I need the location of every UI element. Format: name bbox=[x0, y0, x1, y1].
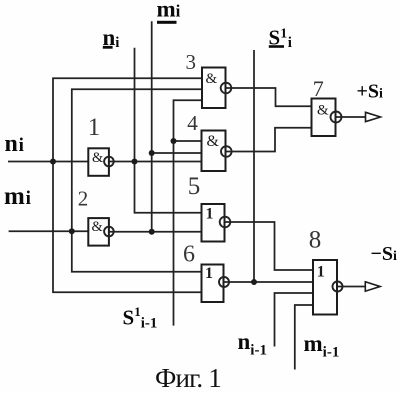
svg-text:8: 8 bbox=[309, 226, 322, 253]
gate U5 OR-NOT box bbox=[202, 204, 225, 242]
svg-text:2: 2 bbox=[78, 187, 89, 211]
node inverted m_i junction at gate5 input bbox=[149, 229, 155, 235]
wire input m_(i-1) to gate8 in4 bbox=[295, 305, 313, 370]
wire gate2 output to gate5 in2 bbox=[109, 231, 202, 233]
wire U-loop from ni node to gate3 in1 and gate6 in2 bbox=[53, 78, 202, 292]
svg-text:&: & bbox=[92, 219, 104, 235]
gate U7 AND-NOT box bbox=[312, 99, 336, 137]
node inverted m_i junction at gate4 tap bbox=[149, 150, 155, 156]
wire net S1(i-1) vertical to gate3 in3 bbox=[174, 100, 203, 325]
svg-text:3: 3 bbox=[186, 50, 197, 74]
svg-text:ni-1: ni-1 bbox=[238, 329, 267, 359]
svg-text:&: & bbox=[317, 103, 329, 119]
svg-text:1: 1 bbox=[317, 264, 325, 281]
inversion bubble gate8 bbox=[333, 282, 343, 292]
inverter U2 box bbox=[88, 218, 109, 246]
inversion bubble gate4 bbox=[221, 146, 232, 157]
wire gate6 output to gate8 in2 bbox=[224, 281, 314, 283]
node ni junction bbox=[50, 159, 56, 165]
underline of inverted m_i bbox=[157, 21, 177, 24]
svg-text:&: & bbox=[207, 133, 220, 150]
svg-text:+Si: +Si bbox=[357, 81, 384, 103]
svg-text:mi: mi bbox=[157, 0, 181, 22]
node mi junction bbox=[69, 228, 75, 234]
wire U-loop from mi node to gate3 in2 and gate6 in1 bbox=[72, 89, 202, 271]
wire gate4 output to gate7 in2 bbox=[226, 128, 312, 152]
wire input n_(i-1) to gate8 in3 bbox=[275, 293, 314, 347]
svg-text:mi-1: mi-1 bbox=[304, 331, 340, 361]
gate U3 AND-NOT box bbox=[202, 68, 226, 109]
wire ni input lead bbox=[8, 161, 88, 163]
wire gate5 output to gate8 in1 bbox=[225, 222, 314, 270]
wire vertical net S1_i bbox=[253, 50, 255, 282]
svg-text:4: 4 bbox=[187, 111, 198, 135]
wire gate7 output lead bbox=[336, 116, 366, 118]
underline of S1_i bbox=[269, 45, 284, 48]
wire vertical net n_i inverted down to gate5 in1 bbox=[135, 48, 202, 213]
wire gate1 output to gate4 in3 bbox=[109, 161, 202, 163]
inversion bubble gate6 bbox=[219, 277, 229, 287]
inversion bubble gate5 bbox=[220, 217, 231, 228]
node S1_i junction on gate6 output bbox=[251, 279, 257, 285]
svg-text:1: 1 bbox=[206, 206, 214, 223]
inversion bubble gate7 bbox=[331, 112, 342, 123]
svg-text:&: & bbox=[92, 150, 104, 166]
gate U4 AND-NOT box bbox=[202, 131, 226, 172]
svg-text:1: 1 bbox=[205, 265, 213, 282]
inversion bubble gate3 bbox=[221, 83, 232, 94]
wire mi input lead bbox=[9, 230, 89, 232]
wire tap S1(i-1) to gate4 in1 bbox=[174, 140, 202, 142]
svg-text:ni: ni bbox=[5, 131, 24, 157]
svg-text:S1i-1: S1i-1 bbox=[123, 304, 158, 332]
svg-text:7: 7 bbox=[313, 76, 324, 101]
svg-text:−Si: −Si bbox=[371, 243, 398, 265]
wire gate8 output lead bbox=[337, 286, 365, 288]
gate U8 OR-NOT box bbox=[313, 260, 337, 315]
svg-text:5: 5 bbox=[188, 173, 201, 200]
output arrow +Si bbox=[366, 112, 381, 121]
wire gate3 output to gate7 in1 bbox=[226, 88, 312, 106]
inversion bubble gate1 bbox=[104, 157, 114, 167]
wire tap m_i net to gate4 in2 bbox=[152, 152, 202, 154]
svg-text:6: 6 bbox=[183, 241, 195, 267]
output arrow -Si bbox=[365, 282, 380, 291]
wire vertical net m_i inverted bbox=[151, 21, 153, 232]
node inverted n_i junction bbox=[132, 159, 138, 165]
svg-text:&: & bbox=[206, 71, 218, 87]
svg-text:Фиг. 1: Фиг. 1 bbox=[155, 363, 221, 393]
node S1(i-1) junction at gate4 tap bbox=[171, 138, 177, 144]
inversion bubble gate2 bbox=[104, 227, 114, 237]
svg-text:mi: mi bbox=[4, 183, 31, 210]
svg-text:1: 1 bbox=[88, 114, 101, 141]
gate U6 OR-NOT box bbox=[202, 265, 224, 303]
inverter U1 box bbox=[88, 148, 109, 176]
underline of inverted n_i bbox=[103, 46, 113, 49]
